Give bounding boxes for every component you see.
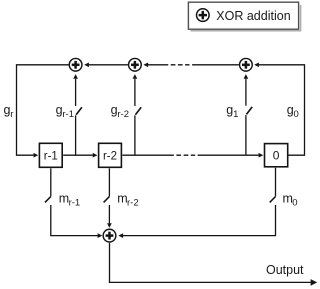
svg-text:r: r [10, 109, 13, 120]
svg-text:r-1: r-1 [44, 150, 58, 162]
svg-text:r-2: r-2 [117, 109, 129, 120]
svg-text:r-1: r-1 [62, 109, 74, 120]
svg-text:r-2: r-2 [127, 198, 139, 209]
svg-text:Output: Output [266, 263, 304, 277]
svg-text:0: 0 [294, 109, 299, 120]
svg-text:0: 0 [273, 149, 280, 163]
svg-text:r-1: r-1 [69, 198, 81, 209]
svg-text:1: 1 [233, 109, 238, 120]
svg-text:XOR addition: XOR addition [216, 9, 290, 23]
svg-text:0: 0 [292, 198, 297, 209]
svg-text:r-2: r-2 [103, 150, 117, 162]
